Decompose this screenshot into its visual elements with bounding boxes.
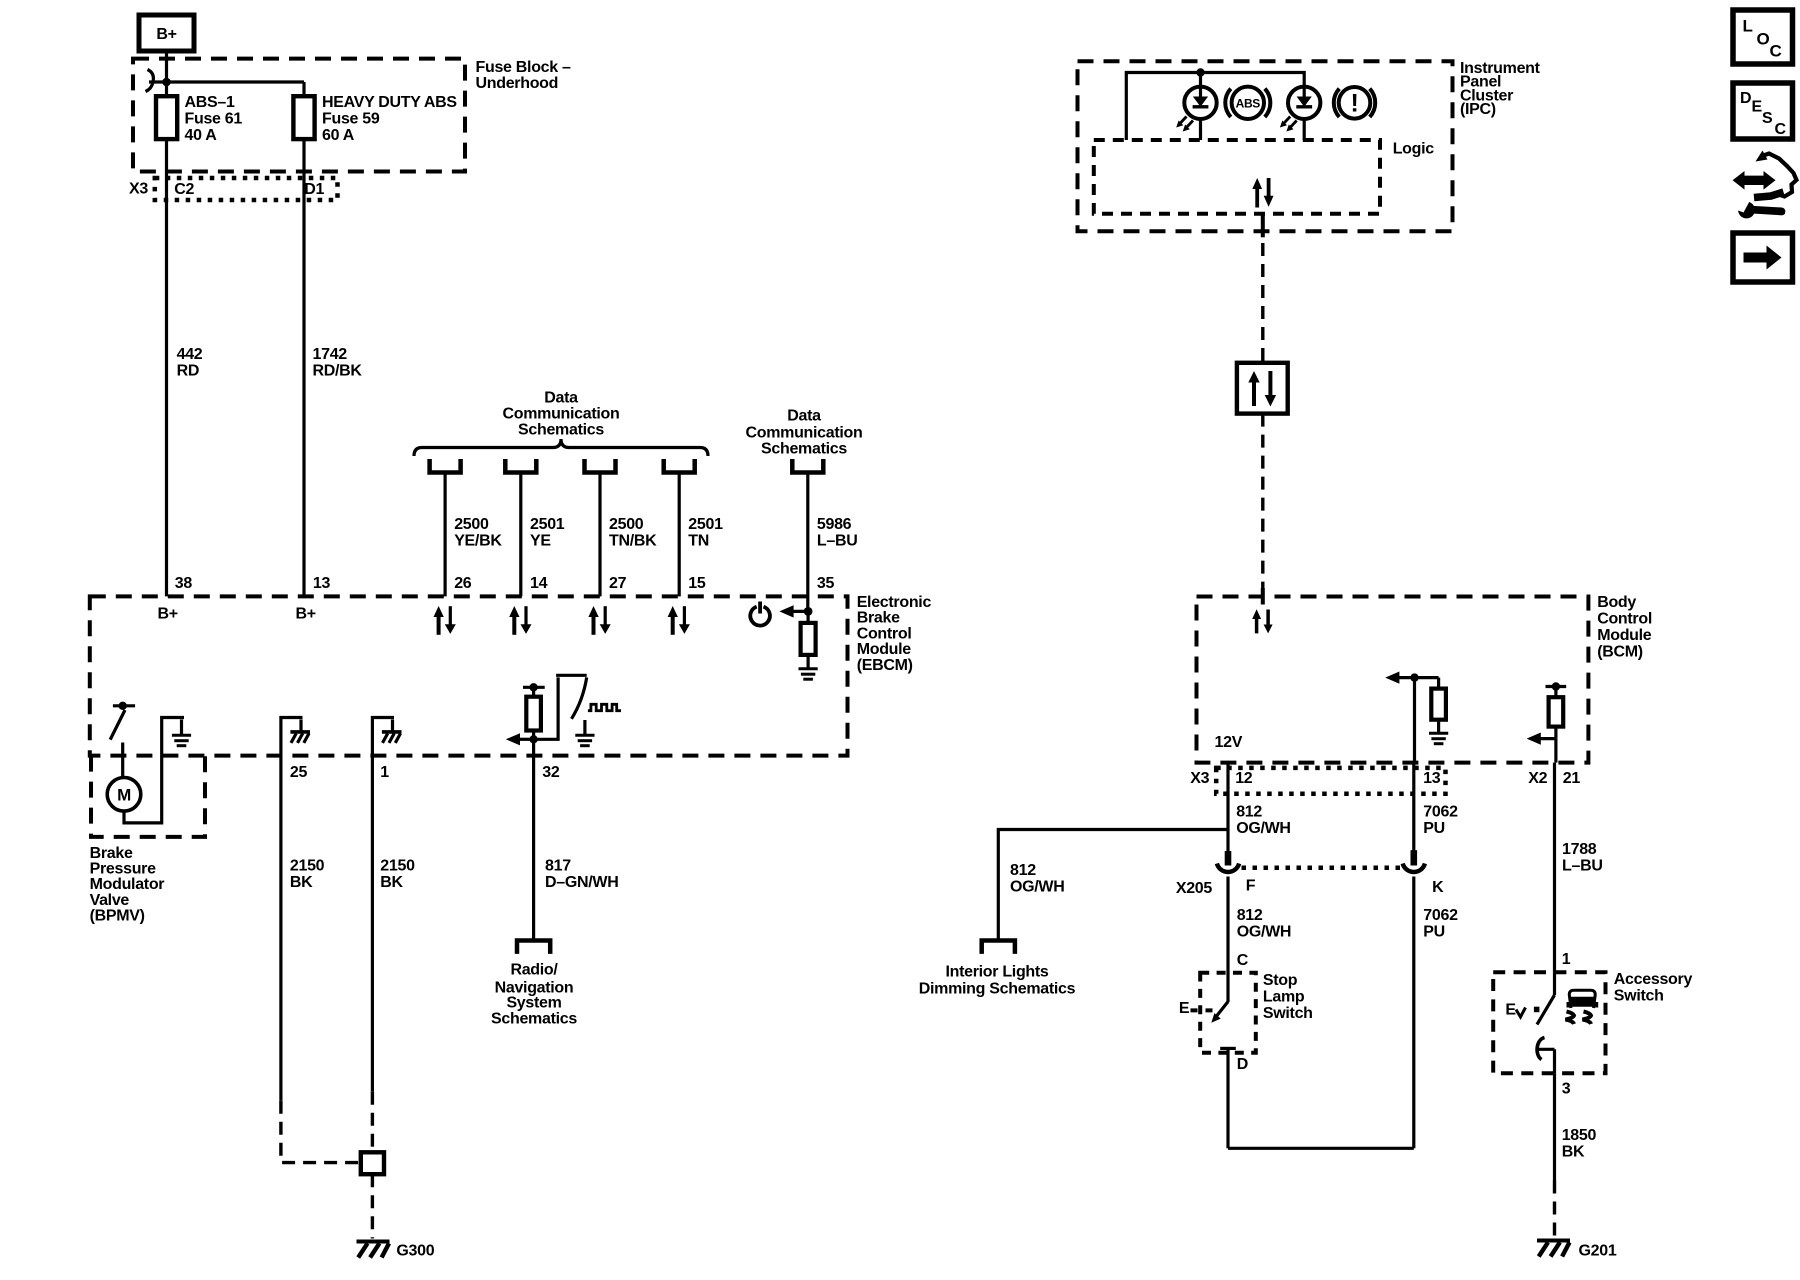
svg-text:1: 1 bbox=[380, 764, 389, 781]
svg-text:38: 38 bbox=[175, 575, 193, 592]
wire resistor to junction pin21 bbox=[1554, 727, 1557, 739]
wire 812 OG/WH from BCM bbox=[1226, 763, 1229, 852]
resistor BCM pin21 bbox=[1549, 697, 1564, 726]
off-page connector serial data 2501 YE bbox=[505, 459, 536, 473]
fuse block label bbox=[476, 59, 572, 92]
svg-text:RD/BK: RD/BK bbox=[313, 363, 363, 380]
wire 2150 left dashed to splice bbox=[281, 1101, 361, 1163]
arrow into EBCM logic pin35 bbox=[779, 605, 808, 617]
brake warning symbol (!) bbox=[1334, 87, 1375, 119]
wire switch to motor bbox=[121, 743, 124, 779]
svg-text:E: E bbox=[1505, 1001, 1516, 1018]
svg-text:14: 14 bbox=[530, 575, 548, 592]
ground internal pin35 bbox=[799, 669, 818, 680]
wire from stop lamp switch bbox=[1226, 1048, 1229, 1148]
svg-text:B+: B+ bbox=[156, 26, 176, 43]
svg-text:D: D bbox=[1740, 90, 1751, 107]
arrows in/out pin27 bbox=[588, 606, 610, 635]
svg-text:TN: TN bbox=[688, 533, 709, 550]
BPMV dashed box bbox=[91, 756, 205, 837]
svg-text:BK: BK bbox=[380, 874, 403, 891]
stop lamp switch dashed box bbox=[1200, 973, 1256, 1053]
svg-text:13: 13 bbox=[1423, 770, 1441, 787]
off-page connector serial data 2500 YE/BK bbox=[430, 459, 461, 473]
svg-text:442: 442 bbox=[177, 346, 203, 363]
svg-text:15: 15 bbox=[688, 575, 706, 592]
svg-text:Dimming Schematics: Dimming Schematics bbox=[919, 981, 1076, 998]
connector X205 terminal K male pin bbox=[1411, 850, 1418, 865]
motor M pump bbox=[107, 778, 141, 812]
svg-text:RD: RD bbox=[177, 363, 200, 380]
ground internal BCM pin13 bbox=[1429, 733, 1448, 744]
ground stub EBCM pump bbox=[180, 720, 183, 735]
svg-text:Brake: Brake bbox=[90, 845, 133, 862]
ground G201 bbox=[1537, 1241, 1570, 1257]
wire 1850 BK bbox=[1553, 1073, 1556, 1180]
wire 7062 inside BCM bbox=[1413, 678, 1416, 763]
svg-text:YE/BK: YE/BK bbox=[454, 533, 502, 550]
wire 2500 TN/BK bbox=[598, 474, 601, 596]
svg-text:Communication: Communication bbox=[746, 424, 863, 441]
BPMV label bbox=[90, 845, 165, 924]
svg-text:System: System bbox=[506, 995, 561, 1012]
wire motor to internal ground bbox=[124, 718, 184, 823]
svg-text:YE: YE bbox=[530, 533, 551, 550]
accessory switch label bbox=[1614, 971, 1693, 1005]
svg-text:S: S bbox=[1762, 110, 1773, 127]
svg-text:Module: Module bbox=[857, 641, 912, 658]
svg-text:PU: PU bbox=[1423, 820, 1445, 837]
svg-text:ABS–1: ABS–1 bbox=[185, 94, 235, 111]
battery feed B+ box bbox=[139, 15, 194, 51]
connector X205 terminal F socket bbox=[1217, 864, 1239, 872]
wire 5986 label bbox=[817, 516, 858, 550]
wire 1742 RD/BK bbox=[302, 139, 305, 596]
supply rail BCM pin21 bbox=[1546, 682, 1567, 698]
svg-text:!: ! bbox=[1350, 90, 1358, 118]
wire 2501 YE bbox=[519, 474, 522, 596]
PWM signal symbol bbox=[588, 704, 621, 710]
svg-text:OG/WH: OG/WH bbox=[1010, 878, 1065, 895]
wire resistor to ground bbox=[806, 655, 809, 668]
svg-text:L–BU: L–BU bbox=[1562, 858, 1603, 875]
svg-text:Radio/: Radio/ bbox=[510, 962, 558, 979]
svg-text:32: 32 bbox=[542, 764, 560, 781]
svg-text:Schematics: Schematics bbox=[761, 440, 847, 457]
svg-text:Pressure: Pressure bbox=[90, 861, 156, 878]
svg-text:2150: 2150 bbox=[290, 858, 325, 875]
chassis ground pin25 bbox=[290, 732, 310, 743]
svg-text:K: K bbox=[1432, 879, 1444, 896]
radio navigation label bbox=[491, 962, 577, 1028]
wire 2500 label bbox=[454, 516, 502, 550]
wire 442 label bbox=[177, 346, 203, 380]
off-page connector serial data 2501 TN bbox=[664, 459, 695, 473]
svg-text:2500: 2500 bbox=[609, 516, 644, 533]
svg-text:Modulator: Modulator bbox=[90, 876, 165, 893]
off-page connector 5986 bbox=[792, 459, 823, 473]
pin E actuator accessory bbox=[1505, 1001, 1539, 1018]
svg-text:D–GN/WH: D–GN/WH bbox=[545, 874, 618, 891]
svg-text:2500: 2500 bbox=[454, 516, 489, 533]
svg-text:Data: Data bbox=[544, 390, 578, 407]
wire 1788 L-BU bbox=[1553, 763, 1556, 973]
junction at fuse ABS-1 bbox=[162, 78, 171, 87]
svg-text:BK: BK bbox=[1562, 1144, 1585, 1161]
supply rail EBCM pin32 bbox=[523, 683, 545, 698]
fuse 59 value label bbox=[322, 94, 457, 144]
supply rail EBCM pump bbox=[113, 702, 135, 710]
brake warning LED bbox=[1280, 87, 1321, 132]
wire 817 D-GN/WH bbox=[532, 739, 535, 938]
accessory switch dashed box bbox=[1493, 972, 1605, 1073]
bus wire inside fuse block bbox=[149, 80, 304, 83]
accessory lower contact bbox=[1537, 1038, 1554, 1074]
EBCM label bbox=[857, 594, 932, 674]
switch lower contact stub bbox=[583, 720, 586, 735]
wire resistor to junction pin32 bbox=[532, 731, 535, 740]
BCM label bbox=[1597, 594, 1652, 661]
svg-text:Stop: Stop bbox=[1263, 972, 1298, 989]
svg-text:HEAVY DUTY ABS: HEAVY DUTY ABS bbox=[322, 94, 457, 111]
wire 2500 TN/BK label bbox=[609, 516, 657, 550]
ground internal pin32 bbox=[575, 735, 594, 746]
svg-text:1850: 1850 bbox=[1562, 1127, 1597, 1144]
svg-text:TN/BK: TN/BK bbox=[609, 533, 657, 550]
fuse 61 ABS-1 bbox=[156, 96, 177, 139]
stop lamp switch blade bbox=[1211, 1002, 1228, 1023]
svg-text:D: D bbox=[1237, 1056, 1248, 1073]
wire to resistor BCM pin13 bbox=[1437, 678, 1440, 690]
wire 2501 label bbox=[530, 516, 565, 550]
wire resistor to ground BCM bbox=[1437, 720, 1440, 733]
EBCM dashed box bbox=[90, 596, 848, 755]
svg-text:13: 13 bbox=[313, 575, 331, 592]
feed wire in IPC bbox=[1126, 73, 1304, 141]
svg-text:Valve: Valve bbox=[90, 892, 130, 909]
ground internal pump bbox=[172, 735, 191, 746]
svg-text:Accessory: Accessory bbox=[1614, 971, 1693, 988]
svg-text:812: 812 bbox=[1236, 804, 1262, 821]
svg-text:OG/WH: OG/WH bbox=[1236, 820, 1291, 837]
arrow out EBCM logic pin32 bbox=[506, 733, 534, 745]
BCM dashed box bbox=[1197, 597, 1589, 763]
ABS indicator LED bbox=[1176, 87, 1217, 132]
wire 812 below X205 bbox=[1226, 877, 1229, 1003]
svg-text:C: C bbox=[1237, 952, 1249, 969]
wire crossing BCM border bbox=[1261, 588, 1265, 605]
data link symbol box bbox=[1237, 363, 1288, 414]
wire D to 7062 bbox=[1228, 1147, 1414, 1150]
wire from B+ to fuses bbox=[165, 51, 168, 97]
svg-text:(BPMV): (BPMV) bbox=[90, 907, 145, 924]
wire 7062 label lower bbox=[1423, 907, 1458, 941]
svg-text:Fuse Block –: Fuse Block – bbox=[476, 59, 572, 76]
interior lights label bbox=[919, 964, 1076, 998]
LOC icon bbox=[1733, 10, 1793, 64]
svg-text:(IPC): (IPC) bbox=[1460, 101, 1496, 118]
DESC icon bbox=[1733, 83, 1793, 139]
wire 812 label upper bbox=[1236, 804, 1291, 838]
svg-text:35: 35 bbox=[817, 575, 835, 592]
arrow out BCM pin13 bbox=[1385, 672, 1438, 684]
svg-text:Schematics: Schematics bbox=[518, 422, 604, 439]
wire to fuse 59 bbox=[302, 82, 305, 97]
svg-text:Schematics: Schematics bbox=[491, 1011, 577, 1028]
wire 1788 inside BCM bbox=[1554, 739, 1557, 763]
svg-text:E: E bbox=[1179, 1000, 1190, 1017]
svg-text:Fuse 61: Fuse 61 bbox=[185, 110, 243, 127]
svg-text:L: L bbox=[1743, 17, 1753, 36]
arrow into BCM logic pin21 bbox=[1527, 733, 1556, 745]
chassis ground pin1 bbox=[382, 732, 402, 743]
svg-text:2501: 2501 bbox=[530, 516, 565, 533]
connector terminal curl bbox=[146, 70, 154, 92]
arrows in/out BCM bbox=[1252, 609, 1272, 633]
accessory switch blade bbox=[1537, 972, 1555, 1024]
pin E actuator bbox=[1179, 1000, 1218, 1017]
svg-text:C: C bbox=[1775, 121, 1787, 138]
junction pin35 bbox=[804, 607, 813, 616]
svg-text:X3: X3 bbox=[129, 181, 148, 198]
wire splice to G300 bbox=[371, 1174, 374, 1238]
splice S300 bbox=[361, 1152, 384, 1174]
stop lamp lower contact bbox=[1220, 1047, 1236, 1050]
wire 817 label bbox=[545, 858, 618, 892]
wire 2150 left label bbox=[290, 858, 325, 892]
svg-text:D1: D1 bbox=[304, 181, 324, 198]
wire to resistor pin35 bbox=[806, 611, 809, 624]
svg-text:Data: Data bbox=[787, 407, 821, 424]
serial data link to BCM bbox=[1261, 414, 1264, 588]
ABS symbol (ABS) bbox=[1225, 87, 1270, 119]
stop lamp switch label bbox=[1263, 972, 1313, 1022]
svg-text:Underhood: Underhood bbox=[476, 75, 559, 92]
svg-text:7062: 7062 bbox=[1423, 804, 1458, 821]
resistor EBCM pin35 pull-up bbox=[801, 623, 816, 655]
wire 5986 L-BU bbox=[806, 474, 809, 611]
svg-text:Switch: Switch bbox=[1614, 988, 1664, 1005]
wire 2500 YE/BK bbox=[444, 474, 447, 596]
svg-text:Body: Body bbox=[1597, 594, 1636, 611]
svg-text:(EBCM): (EBCM) bbox=[857, 657, 913, 674]
svg-text:(BCM): (BCM) bbox=[1597, 644, 1643, 661]
ground stub pin1 bbox=[391, 720, 394, 731]
wire 1742 label bbox=[313, 346, 363, 380]
data communication schematics label right bbox=[746, 407, 863, 457]
svg-text:X205: X205 bbox=[1176, 880, 1213, 897]
svg-text:Control: Control bbox=[857, 625, 912, 642]
wire logic to IPC edge bbox=[1261, 214, 1265, 238]
svg-text:X2: X2 bbox=[1528, 770, 1547, 787]
svg-text:12V: 12V bbox=[1215, 734, 1243, 751]
fuse 59 heavy duty ABS bbox=[293, 96, 314, 139]
svg-text:Module: Module bbox=[1597, 627, 1652, 644]
wire 2501 TN bbox=[678, 474, 681, 596]
ground bracket EBCM pin1 bbox=[372, 718, 394, 756]
wire 442 RD bbox=[165, 139, 168, 596]
svg-text:Interior Lights: Interior Lights bbox=[945, 964, 1048, 981]
connector repair icon bbox=[1733, 151, 1797, 219]
branch wire 812 to interior lights bbox=[998, 830, 1228, 939]
svg-text:40 A: 40 A bbox=[185, 127, 218, 144]
svg-text:PU: PU bbox=[1423, 923, 1445, 940]
wire 1850 dashed to G201 bbox=[1553, 1181, 1556, 1238]
data communication schematics label left bbox=[503, 390, 620, 439]
wire 1850 label bbox=[1562, 1127, 1597, 1161]
svg-text:O: O bbox=[1757, 30, 1770, 49]
traction control icon bbox=[1566, 990, 1599, 1024]
wire 812 label lower bbox=[1237, 907, 1292, 941]
junction pin32 bbox=[529, 735, 537, 743]
svg-text:L–BU: L–BU bbox=[817, 533, 858, 550]
svg-text:27: 27 bbox=[609, 575, 627, 592]
wire 2150 right label bbox=[380, 858, 415, 892]
wire 7062 PU from BCM bbox=[1412, 763, 1415, 851]
IPC label bbox=[1460, 60, 1541, 118]
svg-text:B+: B+ bbox=[296, 606, 316, 623]
svg-text:ABS: ABS bbox=[1236, 96, 1261, 110]
connector X205 body dotted bbox=[1242, 866, 1401, 871]
svg-text:Switch: Switch bbox=[1263, 1005, 1313, 1022]
switch contact bar pin32 bbox=[556, 674, 587, 677]
serial data link IPC to BCM bbox=[1261, 243, 1264, 363]
wire junction to switch pin32 bbox=[534, 677, 559, 739]
fuse block underhood box bbox=[133, 59, 465, 172]
brace over data bus bbox=[414, 439, 708, 456]
svg-text:G300: G300 bbox=[396, 1243, 434, 1260]
arrows in/out logic bbox=[1252, 178, 1273, 208]
svg-text:812: 812 bbox=[1010, 862, 1036, 879]
arrows in/out pin14 bbox=[509, 606, 531, 635]
svg-text:2501: 2501 bbox=[688, 516, 723, 533]
svg-text:817: 817 bbox=[545, 858, 571, 875]
svg-text:Brake: Brake bbox=[857, 610, 900, 627]
svg-text:B+: B+ bbox=[158, 606, 178, 623]
svg-text:7062: 7062 bbox=[1423, 907, 1458, 924]
ground bracket EBCM pin25 bbox=[281, 718, 303, 756]
ground G300 bbox=[357, 1242, 390, 1258]
wire 1788 label bbox=[1562, 841, 1603, 875]
svg-text:E: E bbox=[1752, 99, 1763, 116]
wire 2501 TN label bbox=[688, 516, 723, 550]
svg-text:60 A: 60 A bbox=[322, 127, 355, 144]
svg-text:3: 3 bbox=[1562, 1081, 1571, 1098]
svg-text:BK: BK bbox=[290, 874, 313, 891]
svg-text:C: C bbox=[1770, 42, 1782, 61]
svg-text:X3: X3 bbox=[1190, 770, 1209, 787]
off-page connector interior lights bbox=[982, 941, 1015, 954]
svg-text:12: 12 bbox=[1235, 770, 1253, 787]
svg-text:Fuse 59: Fuse 59 bbox=[322, 110, 380, 127]
junction ABS LED bbox=[1196, 68, 1204, 76]
wire 2150 right dashed to splice bbox=[371, 1092, 374, 1153]
svg-text:1788: 1788 bbox=[1562, 841, 1597, 858]
svg-text:Lamp: Lamp bbox=[1263, 989, 1305, 1006]
svg-text:1: 1 bbox=[1562, 951, 1571, 968]
junction pin13 bbox=[1410, 673, 1418, 681]
wire 7062 below X205 bbox=[1412, 877, 1415, 1149]
power symbol EBCM pin35 bbox=[750, 602, 770, 626]
wire through ABS LED bbox=[1199, 73, 1202, 141]
off-page connector serial data 2500 TN/BK bbox=[585, 459, 616, 473]
resistor EBCM pin32 bbox=[526, 697, 541, 731]
arrows in/out pin15 bbox=[668, 606, 690, 635]
svg-text:25: 25 bbox=[290, 764, 308, 781]
svg-text:21: 21 bbox=[1563, 770, 1581, 787]
svg-text:Communication: Communication bbox=[503, 406, 620, 423]
resistor BCM pin13 bbox=[1431, 689, 1446, 720]
svg-text:Logic: Logic bbox=[1393, 141, 1435, 158]
svg-text:2150: 2150 bbox=[380, 858, 415, 875]
switch blade EBCM pin32 bbox=[572, 677, 587, 718]
next page arrow icon bbox=[1733, 233, 1793, 282]
svg-text:F: F bbox=[1246, 878, 1256, 895]
pump switch blade bbox=[110, 710, 125, 740]
wire 812 branch label bbox=[1010, 862, 1065, 896]
wire 7062 label upper bbox=[1423, 804, 1458, 838]
connector X3 BCM bbox=[1216, 768, 1445, 794]
ground stub pin25 bbox=[299, 720, 302, 731]
svg-text:5986: 5986 bbox=[817, 516, 852, 533]
svg-text:26: 26 bbox=[454, 575, 472, 592]
connector X3 fuse block bbox=[155, 178, 338, 200]
IPC dashed box bbox=[1078, 61, 1453, 231]
logic dashed box bbox=[1094, 140, 1380, 214]
off-page connector radio/nav bbox=[517, 941, 550, 954]
svg-text:OG/WH: OG/WH bbox=[1237, 923, 1292, 940]
fuse 61 value label bbox=[185, 94, 243, 144]
svg-text:G201: G201 bbox=[1579, 1243, 1617, 1260]
arrows in/out pin26 bbox=[434, 606, 456, 635]
svg-text:Control: Control bbox=[1597, 611, 1652, 628]
connector X205 terminal K socket bbox=[1403, 864, 1425, 872]
svg-text:M: M bbox=[117, 785, 131, 804]
wire 2150 BK left bbox=[279, 756, 282, 1101]
svg-text:812: 812 bbox=[1237, 907, 1263, 924]
svg-text:Electronic: Electronic bbox=[857, 594, 932, 611]
wire 2150 BK right bbox=[371, 756, 374, 1092]
svg-text:1742: 1742 bbox=[313, 346, 348, 363]
connector X205 terminal F male pin bbox=[1225, 851, 1232, 866]
svg-text:C2: C2 bbox=[174, 181, 194, 198]
